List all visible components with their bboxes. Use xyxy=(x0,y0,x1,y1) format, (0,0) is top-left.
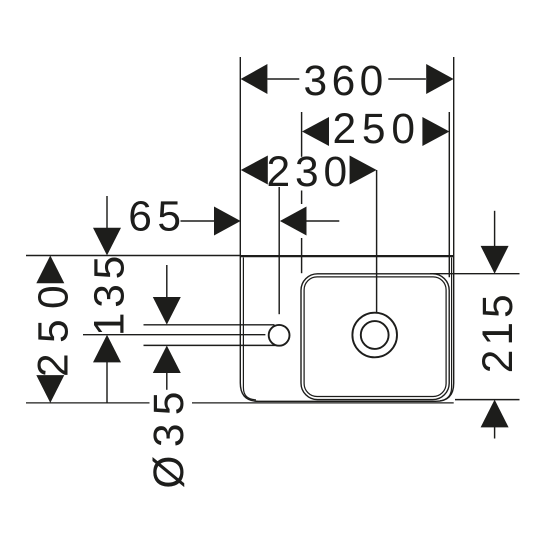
tap hole circle xyxy=(269,325,290,346)
arrowhead 360 right xyxy=(426,64,453,94)
dim 135 top arrow line xyxy=(106,196,108,229)
arrowhead 250 left xyxy=(302,117,329,146)
dim 65 left tail xyxy=(181,220,215,222)
dim 215 bottom arrow line xyxy=(494,427,496,439)
arrowhead d35 bottom xyxy=(153,346,181,374)
dim d35 top arrow line xyxy=(166,265,168,298)
extension line x=301.5 middle segment xyxy=(301,191,303,205)
tap hole center line 135 xyxy=(83,334,265,336)
svg-text:250: 250 xyxy=(333,106,421,153)
arrowhead 230 left xyxy=(241,156,268,185)
basin top edge extension left xyxy=(26,255,240,257)
extension line x=449 xyxy=(448,112,450,277)
dim 65 right tail xyxy=(306,220,339,222)
bowl inner rounded rect xyxy=(304,277,446,397)
basin inner rim line right xyxy=(440,258,452,401)
extension line x=301.5 upper segment xyxy=(301,112,303,157)
svg-text:135: 135 xyxy=(87,251,134,336)
arrowhead 250left top xyxy=(36,256,64,284)
svg-text:230: 230 xyxy=(267,149,352,196)
tap hole top tangent leader xyxy=(144,324,275,326)
arrowhead d35 top xyxy=(153,297,181,325)
svg-text:360: 360 xyxy=(304,58,388,105)
arrowhead 135 bottom xyxy=(93,335,121,363)
basin inner rim line left xyxy=(243,258,256,400)
215 top extension line xyxy=(430,273,520,275)
drain inner circle xyxy=(361,321,389,349)
extension line x=279 tap hole xyxy=(278,187,280,314)
dim d35 bottom arrow line xyxy=(166,373,168,390)
tap hole bottom tangent leader xyxy=(144,344,276,346)
extension line x=376.5 drain xyxy=(376,170,378,312)
arrowhead 230 right xyxy=(350,156,377,185)
drain outer circle xyxy=(352,313,397,358)
dim 360 right tail xyxy=(388,78,426,80)
dim 135 bottom arrow line xyxy=(106,362,108,403)
bowl outer rounded rect xyxy=(301,274,449,400)
arrowhead 65 right xyxy=(280,207,307,236)
arrowhead 360 left xyxy=(241,64,268,94)
svg-text:65: 65 xyxy=(128,193,186,240)
arrowhead 215 top xyxy=(481,246,509,274)
basin front edge extension line right xyxy=(192,402,454,404)
dim 360 left tail xyxy=(267,78,299,80)
basin front edge extension line left xyxy=(26,402,150,404)
svg-text:250: 250 xyxy=(31,275,78,377)
extension line x=301.5 lower segment xyxy=(301,238,303,273)
arrowhead 250 right xyxy=(422,117,449,146)
arrowhead 65 left xyxy=(214,207,241,236)
arrowhead 215 bottom xyxy=(481,400,509,428)
basin top edge xyxy=(240,255,453,257)
215 bottom extension line xyxy=(455,399,520,401)
basin outer outline xyxy=(240,57,453,401)
svg-text:215: 215 xyxy=(475,290,522,373)
arrowhead 135 top xyxy=(93,228,121,256)
svg-text:Ø35: Ø35 xyxy=(146,383,193,488)
arrowhead 250left bottom xyxy=(36,375,64,403)
dim 215 top arrow line xyxy=(494,211,496,247)
